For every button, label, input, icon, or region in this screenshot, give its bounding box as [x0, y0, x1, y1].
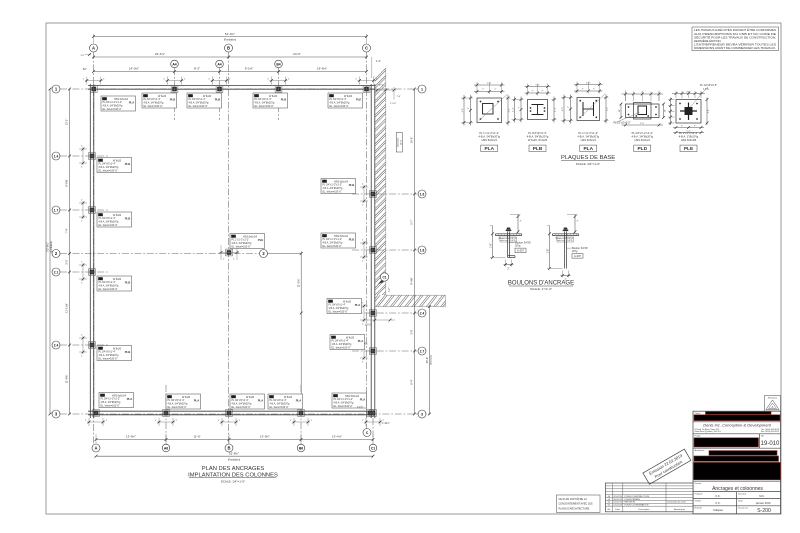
svg-text:EL. béton=100'-0": EL. béton=100'-0" [232, 245, 251, 248]
svg-text:POUR PERMIS: POUR PERMIS [625, 499, 641, 501]
svg-text:51'-8¾": 51'-8¾" [229, 452, 239, 456]
svg-text:C4: C4 [330, 94, 334, 98]
column right y=351 [370, 348, 377, 355]
svg-text:11'-2⅛": 11'-2⅛" [297, 279, 301, 288]
column top x=174.5 [171, 86, 178, 93]
svg-text:A-307: A-307 [517, 249, 524, 253]
svg-text:C4: C4 [99, 158, 103, 162]
column left y=156 [89, 153, 96, 160]
top dimension row A-B-C [94, 56, 367, 58]
anchor label box PLB at 97,276 [97, 276, 132, 291]
svg-text:EL. béton=100'-0": EL. béton=100'-0" [99, 357, 118, 360]
svg-text:13'-4⅞": 13'-4⅞" [332, 435, 342, 439]
svg-text:PL ¾"x1'-2"x1'-2": PL ¾"x1'-2"x1'-2" [479, 131, 499, 135]
svg-text:Fax: (450) 454-3291: Fax: (450) 454-3291 [761, 431, 780, 433]
company section divider [693, 421, 781, 423]
svg-text:21.01.19: 21.01.19 [613, 505, 622, 507]
existing wall hatch horizontal strip [366, 290, 463, 310]
svg-text:EL. béton=100'-0": EL. béton=100'-0" [101, 404, 120, 407]
bubble 1.6 right [418, 190, 426, 198]
anchor label box PLB at 253,93 [253, 93, 288, 108]
right existant dimension [429, 307, 431, 414]
svg-text:C: C [365, 46, 368, 51]
redacted project bar [694, 438, 759, 447]
svg-text:C4: C4 [332, 335, 336, 339]
svg-text:C4: C4 [270, 395, 274, 399]
svg-text:3'-9": 3'-9" [410, 329, 414, 334]
svg-text:HSS 6x6x1/4: HSS 6x6x1/4 [581, 138, 597, 142]
bottom dimension row subdivisions [95, 434, 97, 444]
svg-text:PLA: PLA [355, 303, 361, 307]
anchor label box PLB at 97,212 [97, 212, 132, 227]
svg-text:11'-11⅝": 11'-11⅝" [65, 303, 69, 313]
svg-text:EL. béton=100'-0": EL. béton=100'-0" [332, 346, 351, 349]
small offset dim near bubble A [85, 54, 91, 56]
svg-text:RÉVISION: RÉVISION [625, 501, 636, 504]
anchor label box PLA at 332,393 [332, 393, 367, 408]
svg-text:Ancrages et coloonnes: Ancrages et coloonnes [712, 486, 763, 492]
redacted architect bar 1 [709, 451, 777, 456]
svg-text:13'-0¼": 13'-0¼" [260, 435, 270, 439]
svg-text:C2: C2 [101, 393, 105, 397]
svg-text:A: A [92, 46, 95, 51]
svg-text:SCALE: 1/4"=1'-0": SCALE: 1/4"=1'-0" [221, 480, 245, 484]
column corner bottom right C/3 [367, 410, 374, 417]
svg-text:2": 2" [507, 268, 509, 271]
svg-text:4-B.A. 3/4"Øx20"lg: 4-B.A. 3/4"Øx20"lg [631, 134, 653, 138]
svg-text:13'-9¾": 13'-9¾" [126, 435, 136, 439]
svg-text:PL ¾"x1'-2"x1'-2": PL ¾"x1'-2"x1'-2" [578, 131, 598, 135]
svg-text:7": 7" [568, 106, 570, 108]
general notes box [692, 27, 779, 51]
svg-text:B: B [227, 46, 230, 51]
grid line 2.4 left [60, 344, 108, 346]
svg-text:53'-8¾": 53'-8¾" [46, 242, 50, 251]
svg-text:HSS 6x6x1/4: HSS 6x6x1/4 [482, 138, 498, 142]
svg-text:Dessiné:: Dessiné: [738, 493, 747, 495]
svg-text:1.8: 1.8 [420, 249, 425, 253]
svg-text:EL. béton=100'-0": EL. béton=100'-0" [323, 245, 342, 248]
column left y=345 [89, 342, 96, 349]
architect note box [557, 495, 601, 513]
svg-text:EL. béton=100'-0": EL. béton=100'-0" [168, 406, 187, 409]
existing wall hatch vertical strip [370, 60, 394, 338]
svg-text:C4: C4 [323, 234, 327, 238]
left dimension column [69, 89, 71, 414]
svg-text:B4: B4 [276, 63, 280, 67]
svg-text:(Fondation): (Fondation) [50, 241, 53, 253]
base plate detail PLA 1 [477, 98, 502, 123]
emission stamp [643, 449, 691, 484]
svg-text:7": 7" [641, 92, 643, 94]
svg-text:7": 7" [532, 91, 534, 93]
grid line B4 [278, 68, 280, 120]
svg-text:SCALE: 1"=1'-0": SCALE: 1"=1'-0" [530, 287, 552, 291]
svg-text:PLA: PLA [129, 100, 135, 104]
left wall [89, 84, 91, 418]
redacted client bar 1 [706, 412, 772, 415]
svg-text:A6: A6 [164, 447, 168, 451]
svg-text:4-B.A. 1"Øx20"lg: 4-B.A. 1"Øx20"lg [679, 134, 699, 138]
column top x=278.5 [275, 86, 282, 93]
bubble 1.8 right [418, 246, 426, 254]
column left y=272 [89, 269, 96, 276]
svg-text:EL. béton=100'-0": EL. béton=100'-0" [255, 105, 274, 108]
svg-text:EL. béton=100'-0": EL. béton=100'-0" [103, 108, 122, 111]
svg-text:C4: C4 [99, 346, 103, 350]
svg-text:7": 7" [582, 89, 584, 91]
svg-text:20"lg: 20"lg [515, 245, 521, 248]
svg-text:PLAQUES DE BASE: PLAQUES DE BASE [561, 155, 615, 161]
svg-text:PLD: PLD [637, 146, 647, 152]
interior edge line [264, 253, 301, 255]
svg-text:PLA: PLA [583, 146, 593, 152]
svg-text:(Fondation): (Fondation) [224, 39, 236, 42]
svg-text:7": 7" [494, 89, 496, 91]
anchor label box PLA at 330,334.5 [330, 335, 365, 350]
svg-text:EL. béton=100'-0": EL. béton=100'-0" [189, 105, 208, 108]
svg-text:Date: Date [615, 508, 620, 511]
grid line 1.4 left [60, 155, 108, 157]
svg-text:7'-4": 7'-4" [65, 228, 69, 233]
svg-text:B: B [227, 446, 230, 451]
svg-text:7": 7" [519, 106, 521, 108]
grid line A6 [219, 68, 221, 120]
svg-text:4-B.A. 3/4"Øx20"lg: 4-B.A. 3/4"Øx20"lg [478, 134, 500, 138]
svg-text:PLE: PLE [356, 97, 362, 101]
svg-text:C4: C4 [323, 179, 327, 183]
svg-text:7": 7" [468, 107, 470, 109]
column bottom x=166 [163, 410, 170, 417]
svg-text:K.K.: K.K. [716, 501, 721, 505]
svg-text:POUR COORDINATION: POUR COORDINATION [625, 504, 649, 507]
svg-text:PLE: PLE [684, 146, 694, 152]
grid line 2.7 right [352, 350, 417, 352]
svg-text:PLB: PLB [125, 350, 131, 354]
svg-text:C4: C4 [144, 94, 148, 98]
svg-text:PLA: PLA [360, 397, 366, 401]
title block outline [693, 411, 781, 514]
bubble 2 centre [260, 250, 268, 258]
svg-text:Remarques: Remarques [674, 508, 686, 511]
svg-text:5'-7": 5'-7" [410, 219, 414, 224]
anchor label box PLA at 327,298.5 [327, 299, 362, 314]
svg-text:C4: C4 [99, 213, 103, 217]
redacted client bar 2 [694, 415, 780, 421]
svg-text:1.6: 1.6 [420, 193, 425, 197]
svg-text:B6: B6 [299, 447, 303, 451]
anchor label box PLA at 101,96 [101, 96, 136, 111]
column top x=366.5 [363, 86, 370, 93]
svg-text:PLB: PLB [533, 146, 543, 152]
base plate detail PLD [626, 104, 660, 118]
svg-text:9'-1⅜": 9'-1⅜" [245, 67, 253, 71]
svg-text:No:: No: [761, 436, 765, 438]
svg-text:1'-2": 1'-2" [708, 109, 710, 114]
column right y=250 [370, 247, 377, 254]
column right y=313 [370, 310, 377, 317]
svg-text:13'-2": 13'-2" [65, 119, 69, 126]
bubble B4 [275, 60, 283, 68]
redacted large bar [694, 462, 781, 479]
svg-text:3" 3": 3" 3" [686, 91, 691, 93]
svg-text:19'-5⅝": 19'-5⅝" [317, 67, 327, 71]
svg-text:1'-2": 1'-2" [389, 288, 391, 293]
svg-text:Description: Description [639, 508, 651, 511]
svg-text:3": 3" [520, 221, 522, 223]
svg-text:PLA: PLA [127, 397, 133, 401]
svg-text:1'-2": 1'-2" [509, 108, 511, 113]
svg-text:Date:: Date: [738, 499, 744, 502]
svg-text:A-307: A-307 [574, 254, 581, 258]
svg-text:Indiquée: Indiquée [713, 508, 724, 512]
grid line 1.6 right [352, 193, 417, 195]
column top x=93.8 [90, 86, 97, 93]
svg-text:PLB: PLB [281, 97, 287, 101]
right dimension column [414, 89, 416, 414]
svg-text:10⅝": 10⅝" [378, 84, 383, 87]
svg-text:24'-6⅞": 24'-6⅞" [155, 52, 165, 56]
svg-text:CONJOINTEMENT AVEC LES: CONJOINTEMENT AVEC LES [559, 503, 593, 506]
svg-text:Client:: Client: [695, 412, 702, 415]
svg-text:PLA: PLA [484, 146, 494, 152]
svg-text:A: A [772, 405, 774, 409]
base plate detail PLE [676, 100, 701, 124]
grid line C1 bottom [372, 418, 374, 444]
svg-text:C4: C4 [99, 277, 103, 281]
grid line A4 [174, 68, 176, 120]
svg-text:PL 3/4"x1'-2"x1'-4": PL 3/4"x1'-2"x1'-4" [632, 131, 653, 135]
svg-text:(Existant): (Existant) [396, 138, 399, 147]
svg-text:8'-3": 8'-3" [194, 67, 200, 71]
svg-text:C2: C2 [334, 394, 338, 398]
svg-text:8'-9⅜": 8'-9⅜" [65, 179, 69, 186]
svg-text:CE PLAN DOIT ÊTRE LU: CE PLAN DOIT ÊTRE LU [559, 498, 588, 501]
svg-text:C1: C1 [382, 276, 386, 280]
svg-text:C4: C4 [168, 395, 172, 399]
top overall dimension 51'-0 (Fondation) [93, 34, 95, 44]
svg-text:W 6x20, W 6x25: W 6x20, W 6x25 [528, 138, 548, 142]
svg-text:4-B.A. 3/4"Øx20"lg: 4-B.A. 3/4"Øx20"lg [577, 134, 599, 138]
svg-text:PLB: PLB [125, 216, 131, 220]
bubble 1 [52, 85, 60, 93]
svg-text:7": 7" [542, 91, 544, 93]
bubble 2 left [52, 250, 60, 258]
svg-text:EL. béton=100'-0": EL. béton=100'-0" [323, 190, 342, 193]
svg-text:K.K.: K.K. [716, 494, 721, 498]
svg-text:6'-4": 6'-4" [410, 379, 414, 384]
svg-text:Architecte:: Architecte: [695, 449, 706, 452]
column top x=219.5 [216, 86, 223, 93]
svg-text:7": 7" [593, 89, 595, 91]
svg-text:7": 7" [681, 126, 683, 128]
svg-text:M.K.: M.K. [759, 494, 765, 498]
svg-text:10'-6": 10'-6" [410, 137, 414, 144]
svg-text:HSS 6x6x3/8: HSS 6x6x3/8 [681, 138, 697, 142]
anchor label box PLB at 321,178.5 [321, 179, 356, 194]
svg-text:PL 1/2"x5"x0'-5": PL 1/2"x5"x0'-5" [613, 122, 630, 125]
svg-text:1'-8": 1'-8" [546, 249, 549, 254]
grid line 1.7 left [60, 209, 108, 211]
svg-text:C4: C4 [189, 94, 193, 98]
bubble 1.7 [52, 206, 60, 214]
svg-text:1.4: 1.4 [54, 155, 59, 159]
svg-text:1'-2": 1'-2" [640, 123, 645, 125]
anchor label box PLA at 99,392.5 [99, 393, 134, 408]
bubble A6 bottom [162, 444, 170, 452]
column right y=194 [370, 191, 377, 198]
svg-text:2.1: 2.1 [54, 271, 59, 275]
bottom wall [88, 410, 375, 412]
grid line A [93, 52, 95, 444]
svg-text:1'-2": 1'-2" [586, 82, 591, 84]
anchor label box PLA at 268,394 [268, 394, 303, 409]
column centre B/2 [226, 249, 233, 256]
svg-text:5⅛": 5⅛" [83, 68, 87, 71]
column left y=210 [89, 207, 96, 214]
svg-text:PL 1/2"x5"x0'-5": PL 1/2"x5"x0'-5" [700, 84, 717, 87]
svg-text:Demande du client: Demande du client [668, 501, 687, 504]
grid line 2.4 right [352, 312, 417, 314]
svg-text:PL 3/4"x9"x1'-4": PL 3/4"x9"x1'-4" [528, 131, 547, 135]
bubble C1 bottom [369, 444, 377, 452]
svg-text:Janvier 2019: Janvier 2019 [756, 501, 771, 505]
svg-text:20"lg: 20"lg [572, 250, 578, 253]
svg-text:Dessin no:: Dessin no: [738, 508, 749, 510]
svg-text:3'-0": 3'-0" [65, 259, 69, 264]
svg-text:C1: C1 [371, 447, 375, 451]
svg-text:11'-4⅜": 11'-4⅜" [65, 375, 69, 384]
svg-text:DIMENSIONS AVANT DE COMMENCER: DIMENSIONS AVANT DE COMMENCER LES TRAVAU… [694, 46, 776, 50]
bubble C above bottom [363, 429, 371, 437]
svg-text:PLA: PLA [296, 398, 302, 402]
dessin divider [693, 480, 781, 482]
svg-text:01.02.19: 01.02.19 [613, 502, 622, 504]
svg-text:EL. béton=100'-0": EL. béton=100'-0" [99, 288, 118, 291]
svg-text:3: 3 [421, 413, 423, 417]
bubble A6 [216, 60, 224, 68]
grid line B6 bottom [300, 385, 302, 444]
bubble A4 [171, 60, 179, 68]
svg-text:PLB: PLB [125, 280, 131, 284]
anchor label box PLE at 328,93 [328, 93, 363, 108]
svg-text:Denis Inc. Conception & Develo: Denis Inc. Conception & Development [703, 423, 771, 428]
svg-text:Dessin:: Dessin: [695, 483, 703, 485]
grid line 3 [60, 413, 430, 415]
svg-text:1'-2": 1'-2" [512, 107, 514, 112]
svg-text:PLANS D'ARCHITECTURE: PLANS D'ARCHITECTURE [559, 507, 590, 510]
svg-text:Entreprise: Entreprise [768, 397, 778, 400]
credits grid [693, 491, 781, 493]
bubble C top [363, 44, 371, 52]
svg-text:PLAN DES ANCRAGES: PLAN DES ANCRAGES [202, 466, 265, 472]
grid line B [228, 52, 230, 444]
anchor bolt detail hooked [510, 214, 521, 216]
svg-text:1'-2": 1'-2" [487, 83, 492, 85]
svg-text:1'-2": 1'-2" [555, 107, 557, 112]
svg-text:S-200: S-200 [757, 508, 771, 514]
svg-text:1'-2": 1'-2" [462, 108, 464, 113]
svg-text:10": 10" [665, 109, 667, 112]
svg-text:PLB: PLB [349, 237, 355, 241]
svg-text:10": 10" [619, 109, 621, 112]
top dimension row subdivisions [94, 71, 367, 73]
svg-text:24'-6": 24'-6" [293, 52, 301, 56]
base plate detail PLB [528, 100, 548, 120]
bubble 2.1 [52, 268, 60, 276]
svg-text:2.4: 2.4 [54, 344, 59, 348]
anchor label box PLB at 97,345.5 [97, 346, 132, 361]
svg-text:EL. béton=100'-0": EL. béton=100'-0" [329, 310, 348, 313]
top wall [88, 85, 375, 87]
svg-text:1.7: 1.7 [54, 209, 59, 213]
grid line 1 [60, 88, 418, 90]
small dims near bottom right corner [365, 319, 395, 321]
svg-text:PL 1"x1'-2"x1'-2": PL 1"x1'-2"x1'-2" [679, 131, 698, 135]
bottom overall dimension 51'-8 (Fondation) [96, 455, 373, 457]
left overall dimension [49, 89, 51, 414]
grid line A6 bottom [165, 385, 167, 444]
svg-text:1'-2": 1'-2" [376, 60, 381, 63]
bubble 2.4 left [52, 341, 60, 349]
bubble 2.4 right [418, 309, 426, 317]
svg-text:Échelle:: Échelle: [695, 507, 703, 510]
svg-text:PLB: PLB [170, 97, 176, 101]
svg-text:Vérifié:: Vérifié: [695, 499, 702, 502]
anchor label box PLA at 166,394 [166, 394, 201, 409]
svg-text:EL. béton=100'-0": EL. béton=100'-0" [99, 169, 118, 172]
projet divider [693, 433, 781, 435]
base plate detail PLA 2 [577, 98, 600, 121]
svg-text:PLB: PLB [349, 183, 355, 187]
svg-text:(Existant): (Existant) [430, 355, 433, 365]
column bottom x=96 [93, 410, 100, 417]
bubble 3 right [418, 410, 426, 418]
svg-text:A: A [94, 446, 97, 451]
svg-text:2.4: 2.4 [420, 312, 425, 316]
svg-text:1'-2": 1'-2" [535, 84, 540, 86]
anchor label box PLB at 321,233 [321, 233, 356, 248]
svg-text:EL. béton=100'-0": EL. béton=100'-0" [334, 405, 353, 408]
svg-text:7'-4": 7'-4" [397, 96, 402, 98]
svg-text:EL. béton=100'-0": EL. béton=100'-0" [99, 224, 118, 227]
grid line 2 [60, 253, 259, 255]
svg-text:PLA: PLA [258, 398, 264, 402]
svg-text:11'-6": 11'-6" [193, 435, 200, 439]
svg-text:POUR CONSTRUCTION: POUR CONSTRUCTION [625, 496, 650, 498]
svg-text:BOULONS D'ANCRAGE: BOULONS D'ANCRAGE [508, 281, 574, 287]
bubble A bottom [92, 444, 100, 452]
bubble 1.4 [52, 152, 60, 160]
anchor label box PLB at 142,93 [142, 93, 177, 108]
right wall [370, 84, 372, 418]
bubble A top [90, 44, 98, 52]
svg-text:Projet:: Projet: [695, 435, 702, 438]
svg-text:18.02.19: 18.02.19 [613, 499, 622, 501]
grid line C [366, 52, 368, 429]
svg-text:Saint-Rémi (Québec) J0L 2L0: Saint-Rémi (Québec) J0L 2L0 [695, 430, 722, 433]
revision table [606, 483, 694, 512]
svg-text:19-010: 19-010 [761, 441, 780, 447]
grid line 2.1 left [60, 271, 108, 273]
svg-text:5⅛": 5⅛" [81, 55, 85, 57]
svg-text:A4: A4 [172, 63, 176, 67]
svg-text:C3: C3 [232, 395, 236, 399]
svg-text:1'-2⅝": 1'-2⅝" [390, 102, 396, 105]
svg-text:PLE: PLE [258, 238, 264, 242]
svg-text:PLA: PLA [194, 398, 200, 402]
svg-text:6'-4⅜": 6'-4⅜" [410, 277, 414, 284]
